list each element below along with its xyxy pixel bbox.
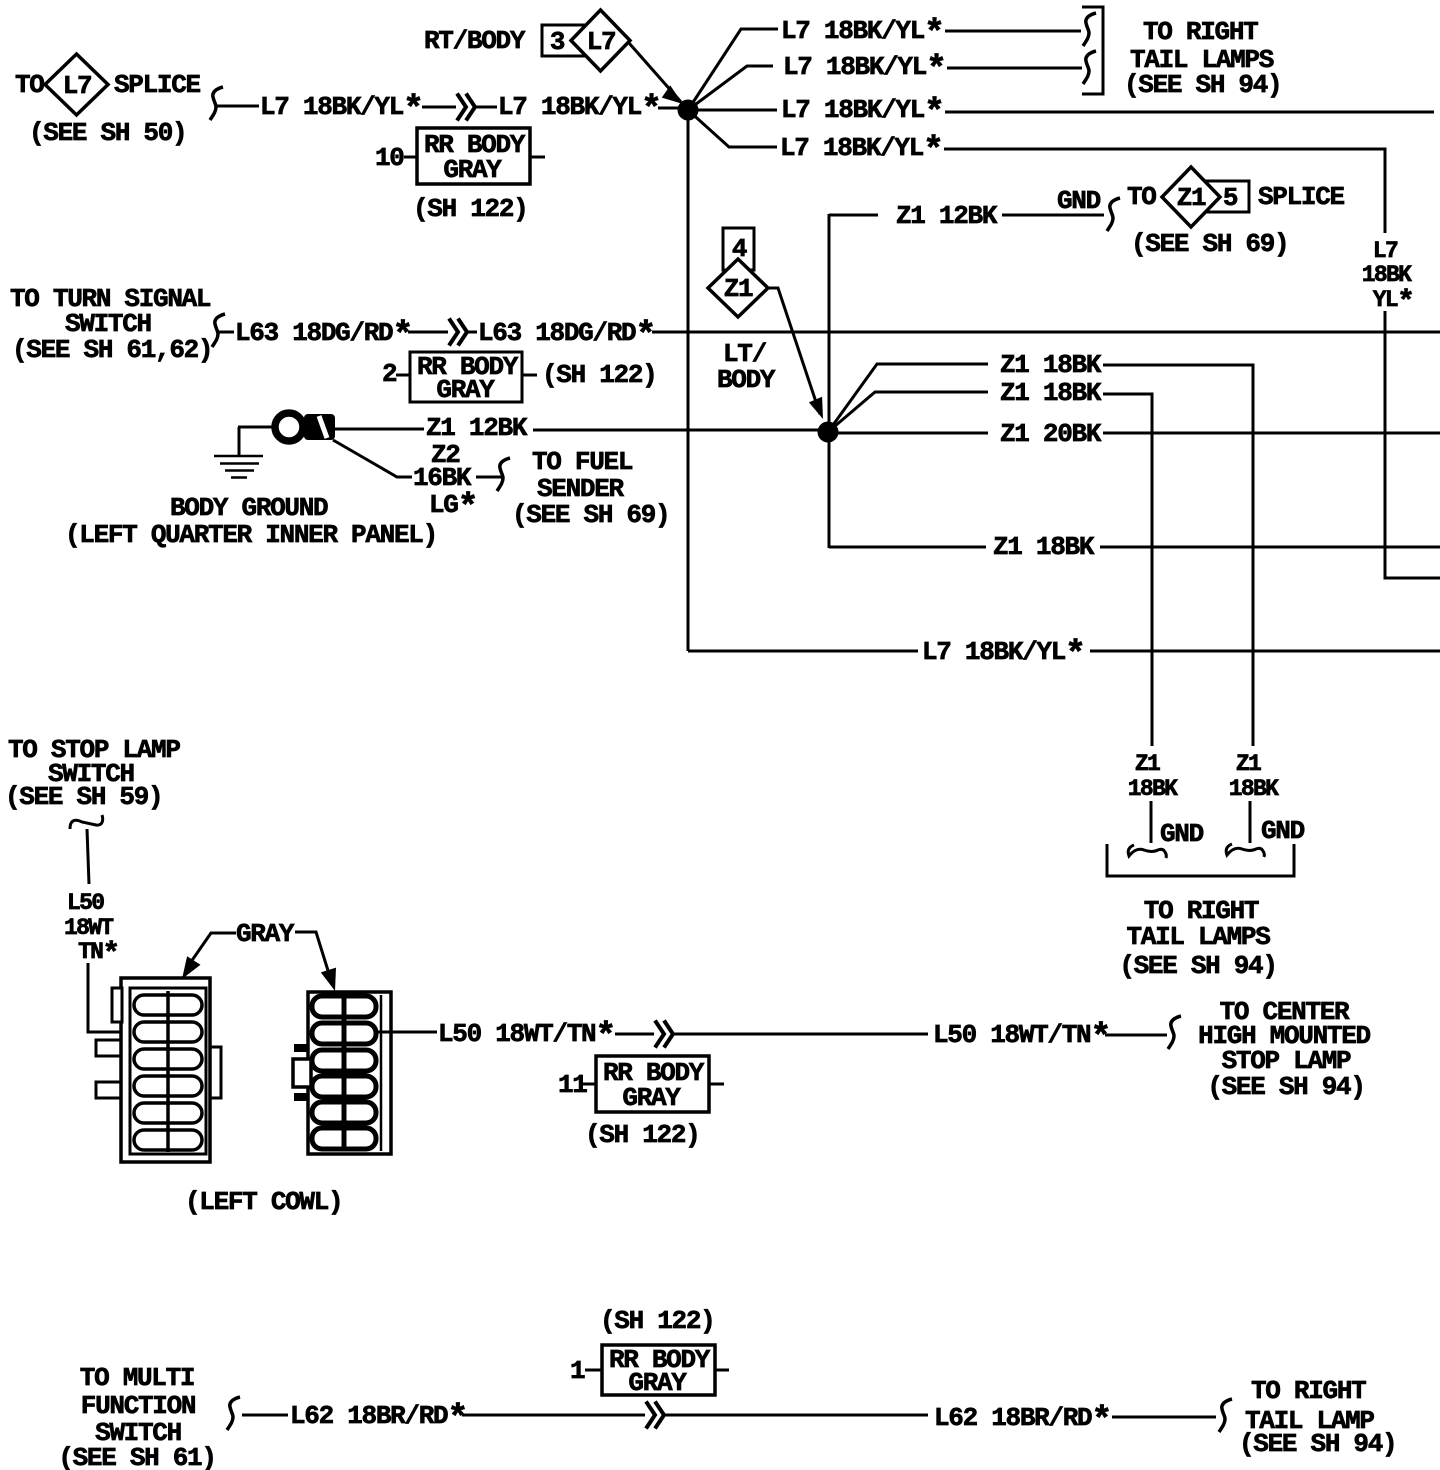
wire Z1 18BK row1 down column bbox=[1103, 365, 1253, 746]
terminal row 1 bbox=[312, 996, 376, 1017]
svg-text:GRAY: GRAY bbox=[443, 155, 502, 185]
break squiggle bbox=[1219, 1399, 1232, 1432]
vertical wire from junction down bbox=[687, 110, 690, 651]
wire Z1 12BK to junction dot2 bbox=[335, 428, 424, 431]
wire Z2 16BK LG* to fuel sender bbox=[333, 440, 412, 477]
splice symbol L7 (SEE SH 50) bbox=[15, 54, 679, 148]
terminal row 3 bbox=[312, 1050, 376, 1071]
svg-text:3: 3 bbox=[550, 27, 565, 57]
svg-text:(SH 122): (SH 122) bbox=[413, 194, 527, 224]
in-line connector chevrons bbox=[457, 94, 475, 121]
svg-text:GRAY: GRAY bbox=[628, 1368, 687, 1398]
svg-text:Z1 18BK: Z1 18BK bbox=[1000, 378, 1102, 408]
svg-text:TO RIGHT: TO RIGHT bbox=[1251, 1376, 1366, 1406]
svg-text:Z1 12BK: Z1 12BK bbox=[426, 413, 528, 443]
svg-text:(SEE SH 59): (SEE SH 59) bbox=[5, 782, 162, 812]
box RR BODY GRAY 10 bbox=[417, 128, 530, 184]
wire Z1 12BK to dot bbox=[533, 429, 819, 432]
gnd columns Z1 18BK bbox=[1107, 751, 1305, 981]
box pin 3 bbox=[542, 25, 585, 56]
terminal spine bbox=[166, 991, 170, 1152]
svg-text:BODY GROUND: BODY GROUND bbox=[170, 493, 328, 523]
svg-text:Z1: Z1 bbox=[1236, 751, 1261, 777]
wire L50 from stop lamp switch bbox=[5, 735, 391, 1217]
terminal row 6 bbox=[312, 1128, 376, 1149]
connector tab upper bbox=[96, 1040, 121, 1056]
wire L62 18BR/RD* multi function switch to right tail lamp bbox=[58, 1306, 1396, 1470]
brace squiggles at tail lamp bracket bbox=[1083, 13, 1096, 46]
arrowhead at junction bbox=[662, 85, 683, 104]
wire L63 from turn signal switch bbox=[10, 284, 1440, 405]
wire L62 to brace bbox=[1112, 1416, 1216, 1419]
svg-text:(SEE SH 61): (SEE SH 61) bbox=[58, 1443, 215, 1470]
terminal spine bbox=[342, 998, 347, 1150]
terminal row 2 bbox=[134, 1022, 202, 1042]
connector inner wall bbox=[380, 995, 383, 1151]
svg-text:18BK: 18BK bbox=[1128, 776, 1178, 802]
wire L7 18BK/YL* lower elbow bbox=[688, 650, 918, 653]
wire L62 to in-line connector bbox=[462, 1414, 928, 1417]
bracket gnd pair bbox=[1226, 844, 1264, 857]
svg-text:GRAY: GRAY bbox=[236, 919, 295, 949]
wire L63 to page edge bbox=[652, 331, 1440, 334]
terminal row 5 bbox=[134, 1103, 202, 1123]
svg-text:GRAY: GRAY bbox=[436, 375, 495, 405]
wire L7 18BK/YL* to in-line connector bbox=[422, 106, 497, 109]
box RR BODY GRAY 2 bbox=[410, 352, 522, 402]
wire down to connector bbox=[88, 963, 146, 1032]
svg-text:(SEE SH 94): (SEE SH 94) bbox=[1239, 1429, 1396, 1459]
wire ticks of box 10 bbox=[404, 156, 545, 159]
svg-text:Z1: Z1 bbox=[1177, 183, 1206, 213]
svg-text:Z1 20BK: Z1 20BK bbox=[1000, 419, 1102, 449]
fan wire L7 row4 down right side bbox=[688, 110, 777, 147]
terminal row 3 bbox=[134, 1049, 202, 1069]
svg-text:(LEFT QUARTER INNER PANEL): (LEFT QUARTER INNER PANEL) bbox=[65, 520, 437, 550]
splice diamond Z1 bbox=[1162, 167, 1220, 227]
connector outer shell bbox=[308, 992, 391, 1154]
wire Z1 20BK to page edge bbox=[838, 432, 988, 435]
wire Z1 20BK to page edge bbox=[1103, 432, 1440, 435]
svg-text:BODY: BODY bbox=[717, 365, 776, 395]
svg-text:(LEFT COWL): (LEFT COWL) bbox=[185, 1187, 342, 1217]
wire to brace bbox=[1105, 1034, 1167, 1037]
in-line connector chevrons bbox=[449, 319, 467, 346]
svg-text:Z1: Z1 bbox=[1135, 751, 1160, 777]
svg-text:(SH 122): (SH 122) bbox=[585, 1120, 699, 1150]
svg-text:TO FUEL: TO FUEL bbox=[532, 447, 633, 477]
break squiggle bbox=[227, 1397, 240, 1430]
connector left cowl (left housing) bbox=[96, 978, 221, 1162]
fan wire L7 row2 bbox=[688, 66, 773, 110]
svg-text:L7: L7 bbox=[63, 71, 92, 101]
wire L63 stub bbox=[219, 331, 234, 334]
bracket to right tail lamps bbox=[1107, 844, 1294, 876]
junction dot node Z1 bbox=[818, 422, 839, 443]
svg-text:2: 2 bbox=[382, 359, 397, 389]
wire row3 to page edge bbox=[945, 111, 1434, 114]
break squiggle bbox=[1168, 1016, 1181, 1049]
svg-text:TO: TO bbox=[15, 70, 44, 100]
svg-text:(SEE SH 69): (SEE SH 69) bbox=[1131, 229, 1288, 259]
svg-text:Z1 18BK: Z1 18BK bbox=[993, 532, 1095, 562]
svg-text:GND: GND bbox=[1057, 186, 1101, 216]
svg-text:SPLICE: SPLICE bbox=[114, 70, 201, 100]
wire vertical x829 bbox=[828, 214, 831, 548]
fan wire Z1 18BK row2 bbox=[828, 392, 988, 432]
wire down to ground bbox=[214, 456, 263, 478]
wire Z1 18BK lower elbow bbox=[829, 546, 986, 549]
break squiggle bbox=[497, 458, 510, 491]
ring terminal crimp bbox=[304, 414, 335, 440]
wire L7 18BK/YL* to connector bbox=[217, 105, 259, 108]
svg-text:TO: TO bbox=[1127, 182, 1156, 212]
fan wire L7 row1 bbox=[375, 7, 1440, 578]
wire down from switch bbox=[87, 829, 89, 884]
terminal row 4 bbox=[134, 1076, 202, 1096]
RT/BODY connector symbol 3-L7 bbox=[424, 10, 699, 651]
svg-text:18BK: 18BK bbox=[1362, 262, 1412, 288]
svg-text:1: 1 bbox=[570, 1356, 585, 1386]
box RR BODY GRAY 11 bbox=[596, 1056, 709, 1112]
leader line right bbox=[295, 932, 330, 977]
wire Z1 18BK row2 down column bbox=[1103, 394, 1152, 746]
connector inner wall bbox=[130, 988, 206, 1154]
svg-text:L7: L7 bbox=[587, 27, 616, 57]
arrowhead right bbox=[321, 968, 336, 991]
terminal row 1 bbox=[134, 995, 202, 1015]
terminal row 6 bbox=[134, 1130, 202, 1150]
svg-text:TAIL LAMPS: TAIL LAMPS bbox=[1126, 922, 1270, 952]
diamond Z1 lt/body bbox=[708, 259, 768, 317]
svg-text:(SEE SH 61,62): (SEE SH 61,62) bbox=[12, 335, 212, 365]
svg-text:(SEE SH 94): (SEE SH 94) bbox=[1119, 951, 1276, 981]
wire brace squiggle lower bbox=[1083, 51, 1096, 84]
svg-text:Z1 12BK: Z1 12BK bbox=[896, 201, 998, 231]
connector tab upper bbox=[294, 1044, 309, 1052]
connector outer shell bbox=[121, 978, 210, 1162]
svg-text:Z1 18BK: Z1 18BK bbox=[1000, 350, 1102, 380]
break squiggle bbox=[1107, 198, 1120, 231]
ground symbol bbox=[238, 427, 241, 455]
svg-text:L50: L50 bbox=[67, 890, 104, 916]
in-line connector chevrons bbox=[655, 1021, 673, 1048]
connector left cowl (right housing) bbox=[293, 992, 391, 1154]
diamond L7 rt/body bbox=[571, 10, 630, 71]
in-line connector chevrons bbox=[646, 1402, 664, 1429]
svg-text:(SH 122): (SH 122) bbox=[600, 1306, 714, 1336]
wire to junction bbox=[658, 107, 679, 110]
svg-text:GND: GND bbox=[1160, 819, 1204, 849]
svg-text:5: 5 bbox=[1223, 183, 1238, 213]
wire ticks of box 11 bbox=[582, 1083, 724, 1086]
svg-text:10: 10 bbox=[375, 143, 404, 173]
ring terminal eyelet bbox=[275, 413, 303, 441]
fan wire Z1 18BK row1 bbox=[828, 364, 988, 432]
box pin 4 bbox=[723, 228, 754, 270]
svg-text:SPLICE: SPLICE bbox=[1258, 182, 1345, 212]
wire ticks of box 1 bbox=[585, 1369, 729, 1372]
gnd break curls bbox=[1128, 845, 1166, 858]
terminal row 5 bbox=[312, 1102, 376, 1123]
svg-text:FUNCTION: FUNCTION bbox=[81, 1391, 195, 1421]
arrowhead left bbox=[182, 956, 201, 979]
gnd stubs bbox=[1151, 801, 1250, 843]
svg-text:GND: GND bbox=[1261, 816, 1305, 846]
svg-text:(SEE SH 69): (SEE SH 69) bbox=[512, 500, 669, 530]
wire to in-line connector bbox=[615, 1033, 928, 1036]
wire L63 to in-line connector bbox=[408, 331, 477, 334]
wire L50 18WT/TN* to center high mounted stop lamp bbox=[378, 997, 1371, 1150]
body ground ring terminal bbox=[65, 413, 819, 550]
svg-text:(SEE SH 50): (SEE SH 50) bbox=[29, 118, 186, 148]
wire row1 to brace bbox=[945, 30, 1081, 33]
svg-text:L7: L7 bbox=[1373, 238, 1398, 264]
break squiggle bbox=[212, 314, 225, 347]
svg-text:TO RIGHT: TO RIGHT bbox=[1143, 17, 1258, 47]
LT/BODY connector symbol 4-Z1 bbox=[688, 228, 1440, 746]
junction dot node L7 bbox=[678, 100, 699, 121]
wire to ring terminal bbox=[238, 426, 272, 429]
svg-text:(SH 122): (SH 122) bbox=[542, 360, 656, 390]
terminal row 2 bbox=[312, 1023, 376, 1044]
terminal row 4 bbox=[312, 1076, 376, 1097]
wire row2 to brace bbox=[947, 67, 1082, 70]
fan wire L7 row3 to page edge bbox=[698, 109, 777, 112]
arrow wire to junction dot2 bbox=[768, 288, 820, 414]
connector tab lower bbox=[96, 1082, 121, 1098]
connector tab lower bbox=[294, 1093, 309, 1101]
wire fan to row1 bbox=[688, 29, 778, 110]
crimp slash highlight bbox=[319, 416, 327, 438]
wire Z1 18BK to page edge bbox=[1100, 546, 1440, 549]
connector side lock bbox=[293, 1059, 311, 1087]
break symbol bbox=[70, 815, 103, 829]
wire Z1 12BK horizontal bbox=[829, 214, 1104, 217]
svg-text:18BK: 18BK bbox=[1229, 776, 1279, 802]
wire Z1 12BK to GND splice bbox=[829, 167, 1345, 548]
wire 16BK stub bbox=[476, 476, 503, 479]
connector right bump bbox=[210, 1047, 221, 1098]
box pin 5 bbox=[1207, 181, 1249, 212]
svg-text:RT/BODY: RT/BODY bbox=[424, 26, 526, 56]
wire L62 stub bbox=[242, 1414, 288, 1417]
box RR BODY GRAY 1 bbox=[602, 1345, 715, 1395]
break squiggle bbox=[210, 87, 223, 120]
leader line left bbox=[186, 933, 236, 969]
svg-text:GRAY: GRAY bbox=[622, 1083, 681, 1113]
splice diamond L7 bbox=[45, 54, 108, 115]
svg-text:TO MULTI: TO MULTI bbox=[80, 1363, 194, 1393]
connector top-left step bbox=[112, 988, 122, 1022]
arrowhead at junction Z1 bbox=[809, 397, 823, 419]
arrow wire to junction bbox=[629, 43, 681, 102]
svg-text:Z1: Z1 bbox=[724, 274, 753, 304]
wire row4 to right column bbox=[944, 149, 1440, 578]
svg-text:(SEE SH 94): (SEE SH 94) bbox=[1124, 70, 1281, 100]
wire from connector bbox=[378, 1031, 437, 1034]
wire ticks of box 2 bbox=[396, 374, 537, 377]
wire L7 18BK/YL* to page edge bbox=[1090, 650, 1440, 653]
bracket to right tail lamps bbox=[1082, 7, 1103, 94]
svg-text:(SEE SH 94): (SEE SH 94) bbox=[1207, 1072, 1364, 1102]
